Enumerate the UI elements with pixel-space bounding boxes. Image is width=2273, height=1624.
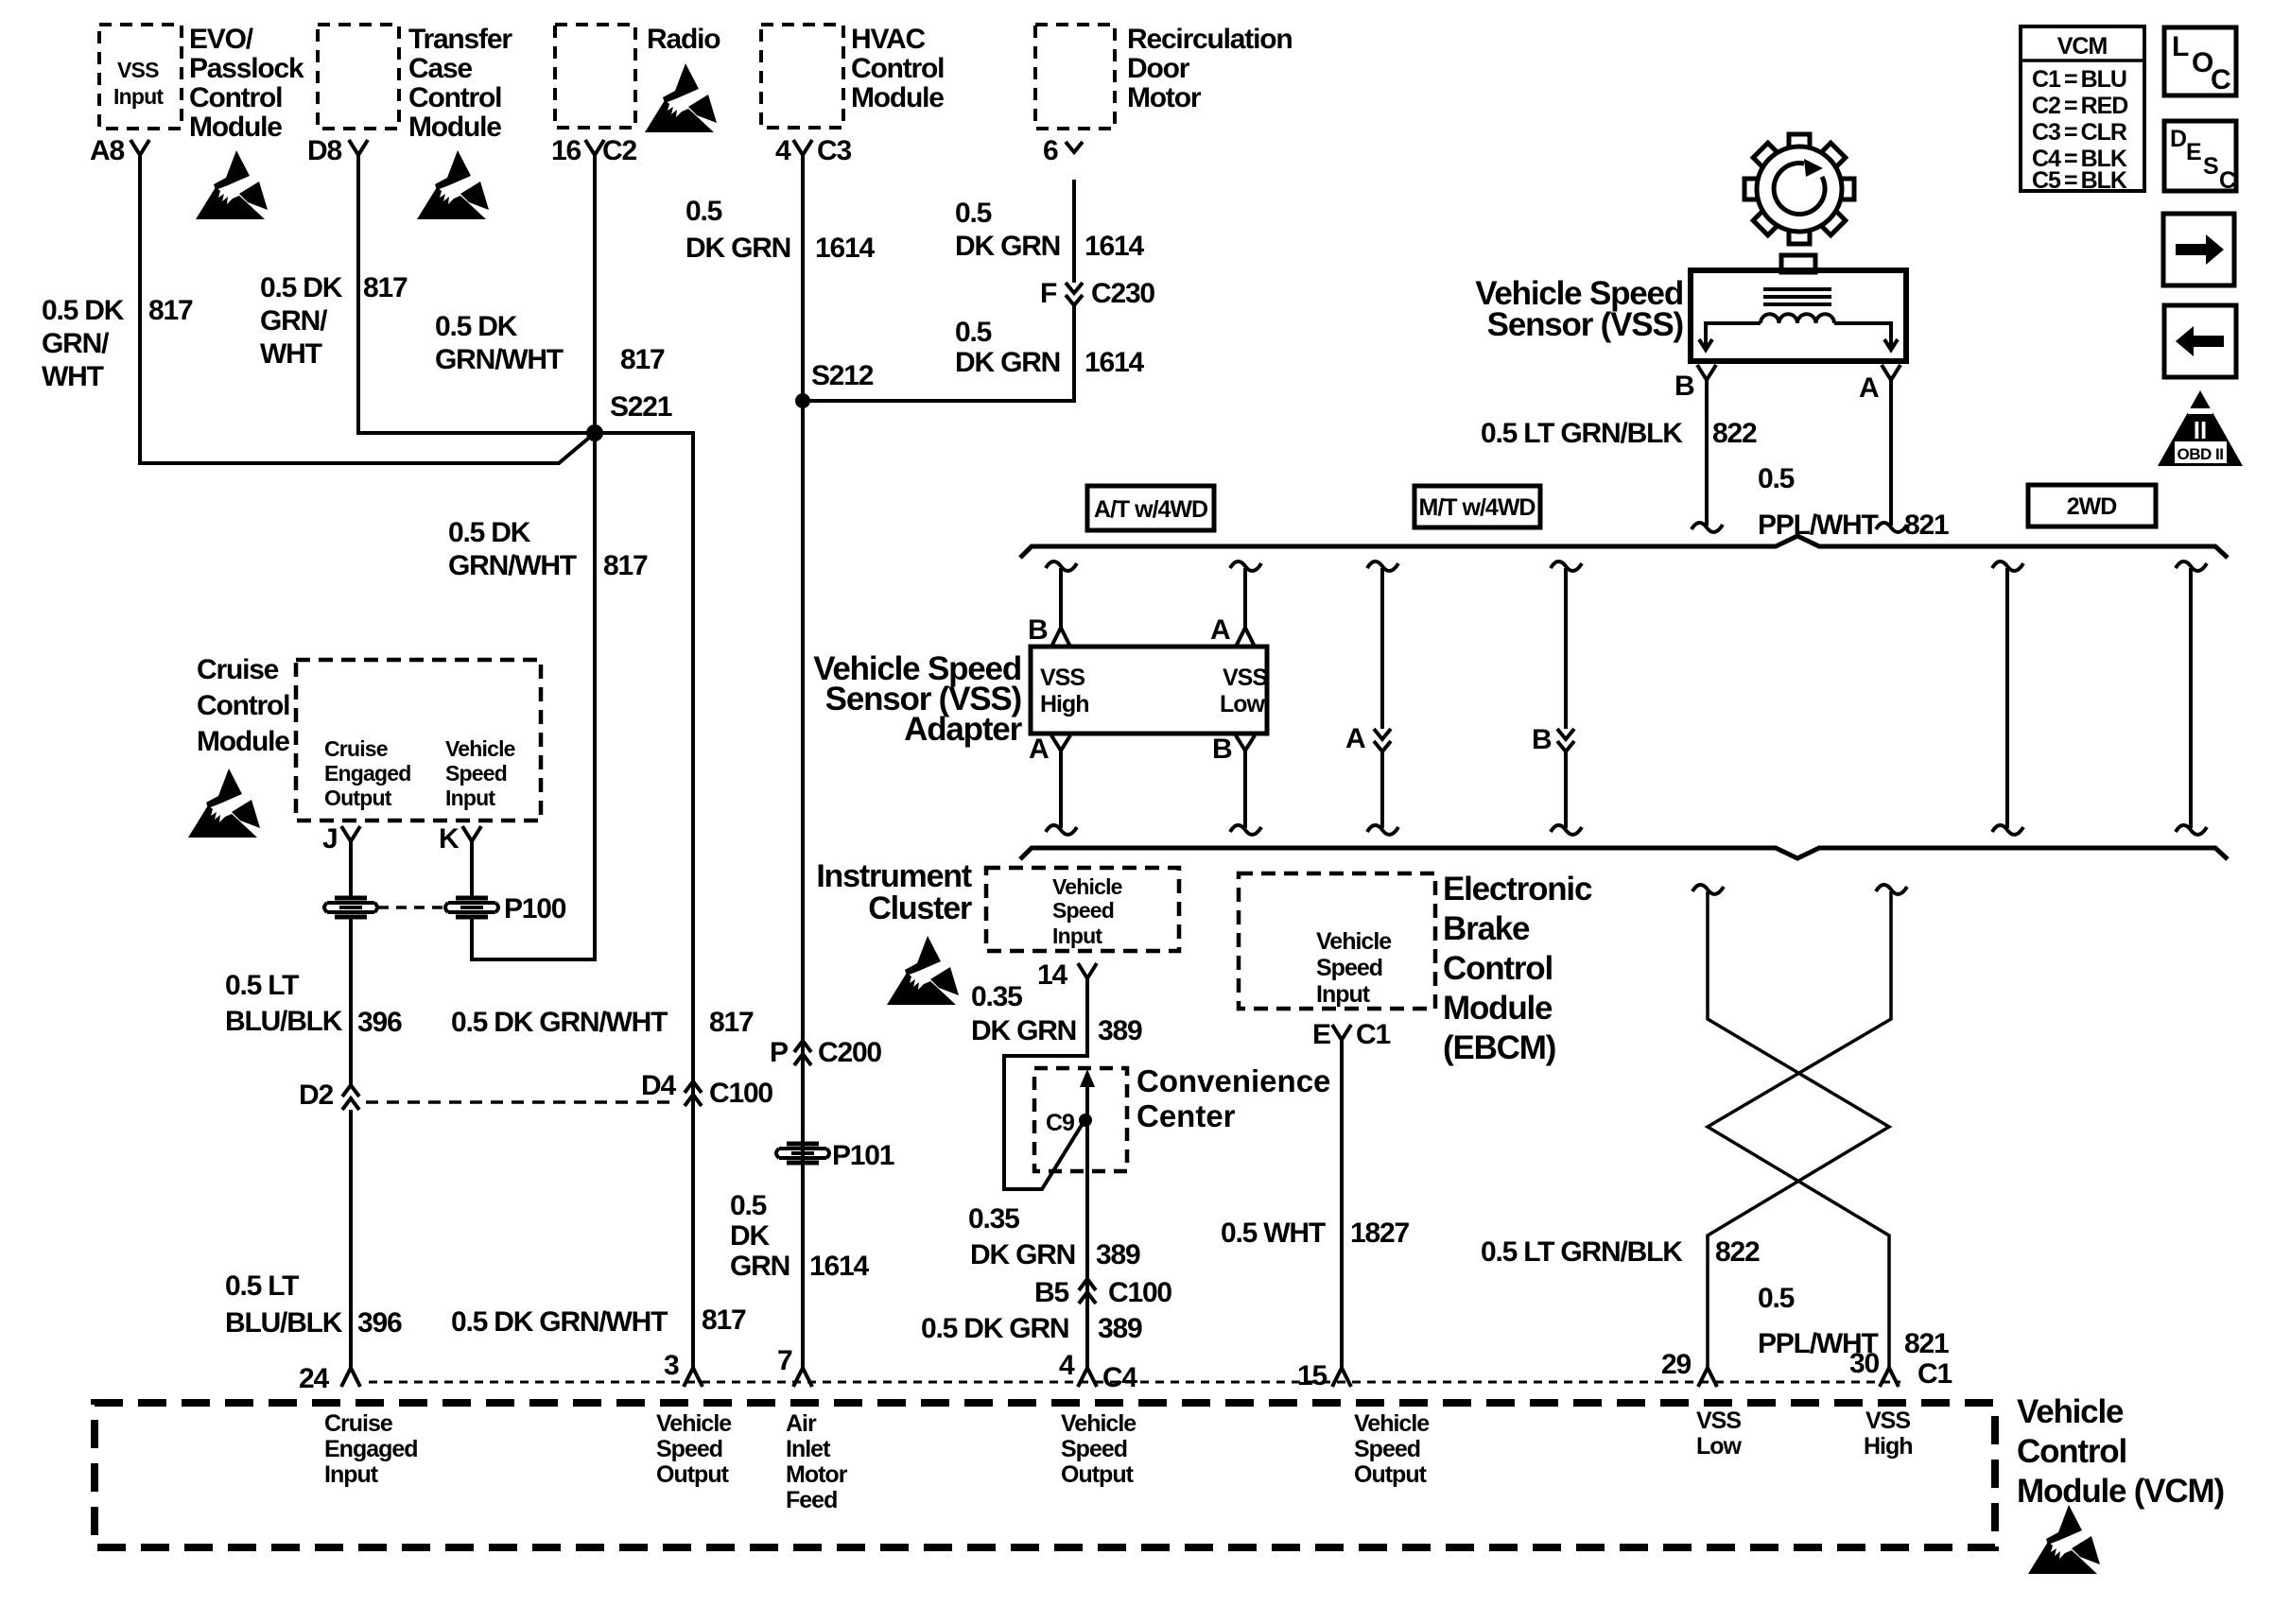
- wire 1827: EBCM E down to VCM pin 15: [1340, 1040, 1344, 1368]
- wire 817: S221 right then down to VCM pin 3: [595, 433, 693, 1368]
- svg-text:1614: 1614: [809, 1251, 869, 1282]
- svg-text:Vehicle: Vehicle: [1354, 1410, 1430, 1437]
- svg-text:B: B: [1212, 734, 1232, 765]
- left-arrow legend box: [2164, 305, 2236, 377]
- svg-text:D2: D2: [299, 1080, 333, 1111]
- svg-text:0.5 LT GRN/BLK: 0.5 LT GRN/BLK: [1481, 418, 1683, 449]
- svg-text:A: A: [1029, 734, 1049, 765]
- wire 822 from VSS B down to brace: [1705, 380, 1709, 526]
- branch wire to adapter VSS Low (pin A): [1230, 561, 1261, 571]
- dashed connector line D2 to D4: [366, 1100, 677, 1104]
- svg-text:396: 396: [357, 1307, 402, 1339]
- svg-text:GRN/: GRN/: [42, 328, 110, 359]
- svg-text:0.5 DK: 0.5 DK: [448, 517, 531, 548]
- svg-text:14: 14: [1037, 959, 1067, 991]
- svg-text:0.5 DK: 0.5 DK: [42, 295, 125, 326]
- svg-text:BLU/BLK: BLU/BLK: [225, 1006, 343, 1037]
- svg-text:Output: Output: [324, 786, 392, 810]
- dashed link between P100 grommets: [378, 906, 444, 909]
- svg-text:F: F: [1040, 278, 1057, 309]
- branch wire to adapter VSS High (pin B): [1046, 561, 1077, 571]
- svg-text:15: 15: [1297, 1360, 1327, 1391]
- svg-text:1614: 1614: [1084, 347, 1144, 378]
- svg-text:A8: A8: [90, 135, 124, 166]
- svg-text:P: P: [770, 1037, 788, 1068]
- svg-text:BLU/BLK: BLU/BLK: [225, 1307, 343, 1339]
- svg-text:822: 822: [1712, 418, 1757, 449]
- svg-text:S212: S212: [811, 360, 874, 391]
- svg-text:Inlet: Inlet: [786, 1436, 831, 1462]
- component Vehicle Speed Sensor (VSS) Adapter: [1031, 647, 1267, 734]
- svg-text:Motor: Motor: [1127, 82, 1202, 113]
- svg-text:Engaged: Engaged: [324, 1436, 418, 1462]
- svg-text:DK GRN: DK GRN: [955, 231, 1060, 262]
- svg-text:C: C: [2211, 64, 2230, 95]
- wire: K up into P100 grommet: [470, 841, 474, 897]
- svg-text:Center: Center: [1136, 1098, 1236, 1133]
- svg-text:4: 4: [1059, 1350, 1075, 1381]
- svg-text:VSS: VSS: [1040, 665, 1084, 691]
- svg-text:Module: Module: [189, 112, 282, 143]
- svg-text:16: 16: [551, 135, 581, 166]
- wire 396: D2 down to VCM pin 24: [349, 1110, 353, 1368]
- svg-text:DK GRN: DK GRN: [955, 347, 1060, 378]
- wire 1614: HVAC C3 down to S212 and on to VCM pin 7: [801, 155, 805, 1368]
- svg-text:817: 817: [709, 1007, 754, 1038]
- svg-text:1614: 1614: [1084, 231, 1144, 262]
- svg-text:0.5: 0.5: [685, 196, 722, 227]
- dashed pin header line: [369, 1381, 1900, 1384]
- svg-text:0.5 DK GRN/WHT: 0.5 DK GRN/WHT: [451, 1306, 668, 1338]
- ESD icon (Radio): [645, 63, 717, 132]
- svg-text:389: 389: [1098, 1015, 1142, 1046]
- svg-text:Module: Module: [197, 726, 289, 757]
- svg-text:PPL/WHT: PPL/WHT: [1758, 510, 1878, 541]
- svg-text:Vehicle: Vehicle: [1052, 874, 1122, 899]
- module Convenience Center (dashed box): [1034, 1068, 1127, 1171]
- svg-text:0.5: 0.5: [730, 1190, 767, 1221]
- svg-text:B: B: [1532, 724, 1552, 755]
- svg-text:Recirculation: Recirculation: [1127, 24, 1292, 55]
- splice S221: [586, 424, 603, 441]
- svg-text:817: 817: [702, 1304, 746, 1336]
- svg-text:Motor: Motor: [786, 1461, 848, 1488]
- svg-text:Module: Module: [851, 82, 944, 113]
- svg-text:Input: Input: [1316, 981, 1371, 1008]
- svg-text:0.5: 0.5: [1758, 1283, 1795, 1314]
- VCM connector color legend table: [2021, 26, 2144, 191]
- svg-text:24: 24: [299, 1363, 329, 1394]
- top brace bus line: [1020, 536, 2228, 558]
- option label box A/T w/4WD: [1087, 486, 1214, 530]
- svg-text:4: 4: [775, 135, 791, 166]
- svg-text:P100: P100: [504, 893, 566, 924]
- rotation arrow inside gear: [1774, 164, 1825, 215]
- ESD icon (Instrument Cluster): [887, 936, 959, 1005]
- svg-text:0.5 DK GRN: 0.5 DK GRN: [921, 1313, 1068, 1344]
- grommet P100 (K side): [445, 898, 498, 917]
- wire 389: pin 14 down, jog left around convenience center: [1004, 978, 1087, 1189]
- svg-text:D: D: [2170, 126, 2186, 152]
- DESC legend box: [2164, 121, 2236, 191]
- svg-text:821: 821: [1904, 510, 1949, 541]
- svg-text:Control: Control: [197, 690, 289, 721]
- svg-text:II: II: [2194, 416, 2207, 444]
- svg-text:2WD: 2WD: [2067, 493, 2117, 520]
- module Radio: [555, 25, 635, 128]
- svg-text:Low: Low: [1220, 691, 1266, 717]
- sensor neck: [1781, 255, 1815, 272]
- M/T branch wire A: [1367, 561, 1398, 571]
- svg-text:Engaged: Engaged: [324, 761, 411, 786]
- svg-text:C200: C200: [818, 1037, 881, 1068]
- svg-text:M/T w/4WD: M/T w/4WD: [1419, 494, 1536, 521]
- svg-text:821: 821: [1904, 1328, 1949, 1359]
- 2WD branch wire (left): [1992, 561, 2023, 571]
- bottom brace bus line: [1020, 848, 2228, 859]
- svg-text:Control: Control: [189, 82, 282, 113]
- svg-text:30: 30: [1849, 1348, 1879, 1379]
- M/T branch wire B: [1551, 561, 1582, 571]
- svg-text:C3: C3: [817, 135, 851, 166]
- wire 396: J down through P100 to D2: [349, 841, 353, 897]
- svg-text:D8: D8: [307, 135, 341, 166]
- svg-text:VCM: VCM: [2057, 33, 2108, 60]
- svg-text:817: 817: [363, 272, 408, 303]
- sensor coil: [1761, 314, 1834, 323]
- svg-text:DK GRN: DK GRN: [971, 1015, 1076, 1046]
- svg-text:Passlock: Passlock: [189, 53, 304, 84]
- svg-text:K: K: [439, 823, 460, 855]
- svg-text:L: L: [2172, 31, 2189, 62]
- svg-text:Speed: Speed: [656, 1436, 722, 1462]
- svg-text:WHT: WHT: [42, 361, 104, 392]
- svg-text:C1: C1: [1356, 1019, 1390, 1050]
- svg-text:Adapter: Adapter: [904, 711, 1022, 748]
- svg-text:A: A: [1345, 723, 1365, 754]
- svg-text:B5: B5: [1034, 1277, 1068, 1308]
- svg-text:0.5 WHT: 0.5 WHT: [1221, 1218, 1326, 1249]
- wire 817: A8 down and right to S221: [140, 155, 595, 463]
- option label box M/T w/4WD: [1414, 486, 1540, 527]
- module Transfer Case Control Module: [318, 25, 399, 129]
- svg-text:822: 822: [1715, 1236, 1760, 1268]
- svg-text:7: 7: [777, 1345, 792, 1376]
- svg-text:1614: 1614: [815, 233, 875, 264]
- svg-text:DK GRN: DK GRN: [685, 233, 790, 264]
- svg-text:Output: Output: [1354, 1461, 1428, 1488]
- svg-text:Control: Control: [2017, 1433, 2126, 1470]
- wire 822 VSS Low: below bottom brace, crossover to pin 29: [1692, 885, 1724, 894]
- svg-text:Electronic: Electronic: [1443, 871, 1592, 907]
- svg-text:817: 817: [148, 295, 193, 326]
- svg-text:WHT: WHT: [260, 338, 322, 370]
- svg-text:0.5 DK: 0.5 DK: [260, 272, 343, 303]
- svg-text:B: B: [1028, 614, 1048, 646]
- svg-text:Door: Door: [1127, 53, 1190, 84]
- ESD icon (VCM): [2028, 1505, 2100, 1574]
- svg-text:GRN/WHT: GRN/WHT: [435, 344, 564, 375]
- grommet P101 on HVAC wire: [776, 1144, 829, 1163]
- svg-text:High: High: [1040, 691, 1089, 717]
- svg-text:C5 = BLK: C5 = BLK: [2032, 167, 2127, 194]
- svg-text:Speed: Speed: [445, 761, 507, 786]
- svg-text:Output: Output: [1061, 1461, 1135, 1488]
- svg-text:HVAC: HVAC: [851, 24, 926, 55]
- wire up-arrow inside convenience center: [1085, 1081, 1089, 1368]
- svg-text:C4: C4: [1102, 1362, 1137, 1393]
- svg-text:0.5 LT GRN/BLK: 0.5 LT GRN/BLK: [1481, 1236, 1683, 1268]
- svg-text:C100: C100: [1108, 1277, 1171, 1308]
- svg-text:Convenience: Convenience: [1136, 1063, 1330, 1098]
- svg-text:Speed: Speed: [1316, 955, 1382, 981]
- svg-text:Sensor (VSS): Sensor (VSS): [1487, 306, 1683, 343]
- svg-text:0.5 DK GRN/WHT: 0.5 DK GRN/WHT: [451, 1007, 668, 1038]
- svg-text:A/T w/4WD: A/T w/4WD: [1094, 496, 1207, 523]
- wire 821 from VSS A down to brace: [1889, 380, 1893, 526]
- svg-text:OBD II: OBD II: [2178, 445, 2224, 463]
- svg-text:C1 = BLU: C1 = BLU: [2032, 66, 2126, 93]
- svg-text:C2 = RED: C2 = RED: [2032, 93, 2127, 119]
- svg-text:6: 6: [1043, 135, 1058, 166]
- svg-text:E: E: [1312, 1019, 1330, 1050]
- svg-text:A: A: [1210, 614, 1230, 646]
- ESD icon (Transfer Case): [417, 150, 489, 219]
- svg-text:C: C: [2219, 167, 2236, 194]
- svg-text:S: S: [2203, 153, 2218, 180]
- splice S212: [795, 393, 810, 408]
- svg-text:Case: Case: [408, 53, 472, 84]
- svg-text:GRN/WHT: GRN/WHT: [448, 550, 577, 581]
- svg-text:VSS: VSS: [1865, 1408, 1910, 1434]
- svg-text:DK GRN: DK GRN: [970, 1239, 1075, 1270]
- svg-text:Radio: Radio: [647, 24, 720, 55]
- svg-text:0.5 LT: 0.5 LT: [225, 1270, 299, 1302]
- 2WD branch wire (right): [2176, 561, 2207, 571]
- svg-text:Transfer: Transfer: [408, 24, 512, 55]
- svg-text:C3 = CLR: C3 = CLR: [2032, 119, 2127, 146]
- module EVO/Passlock Control Module (dashed box, VSS Input): [99, 25, 182, 129]
- svg-text:Speed: Speed: [1052, 898, 1114, 923]
- svg-text:C230: C230: [1091, 278, 1154, 309]
- wire S212 to recirculation motor: [803, 306, 1074, 401]
- svg-text:(EBCM): (EBCM): [1443, 1029, 1555, 1066]
- svg-text:Vehicle: Vehicle: [445, 736, 515, 761]
- svg-text:Vehicle: Vehicle: [1061, 1410, 1136, 1437]
- svg-text:C100: C100: [709, 1078, 772, 1109]
- OBD II triangle symbol: [2158, 390, 2243, 466]
- svg-text:0.35: 0.35: [971, 981, 1022, 1012]
- sensor internal wires with down arrows: [1706, 323, 1761, 348]
- wire 817: S221 down, left, up to cruise K via P100: [472, 433, 595, 959]
- wire 817: D8 down and right to S221: [358, 155, 595, 433]
- component Vehicle Speed Sensor (VSS) body: [1691, 270, 1906, 361]
- svg-text:Module (VCM): Module (VCM): [2017, 1473, 2224, 1510]
- svg-text:Input: Input: [113, 84, 164, 109]
- svg-text:817: 817: [603, 550, 648, 581]
- svg-text:C2: C2: [602, 135, 636, 166]
- svg-text:GRN: GRN: [730, 1251, 789, 1282]
- wire 821 VSS High: below bottom brace, crossover to pin 30: [1876, 885, 1907, 894]
- svg-text:0.5: 0.5: [1758, 463, 1795, 494]
- svg-text:Air: Air: [786, 1410, 817, 1437]
- svg-text:Input: Input: [324, 1461, 379, 1488]
- svg-text:Control: Control: [1443, 950, 1553, 987]
- module Recirculation Door Motor: [1035, 25, 1115, 129]
- svg-text:3: 3: [664, 1350, 679, 1381]
- svg-text:29: 29: [1661, 1349, 1691, 1380]
- svg-text:Cluster: Cluster: [868, 890, 972, 926]
- svg-text:Vehicle: Vehicle: [656, 1410, 732, 1437]
- svg-text:C9: C9: [1046, 1110, 1074, 1136]
- svg-text:0.5 LT: 0.5 LT: [225, 970, 299, 1001]
- svg-text:Cruise: Cruise: [324, 1410, 393, 1437]
- svg-text:0.5 DK: 0.5 DK: [435, 311, 518, 342]
- module HVAC Control Module: [761, 25, 843, 128]
- svg-text:C1: C1: [1917, 1358, 1952, 1390]
- svg-text:J: J: [322, 823, 338, 855]
- ESD icon (EVO module): [196, 150, 268, 219]
- svg-text:S221: S221: [610, 391, 672, 423]
- option label box 2WD: [2028, 485, 2156, 527]
- svg-text:389: 389: [1096, 1239, 1140, 1270]
- svg-text:D4: D4: [641, 1070, 676, 1101]
- svg-text:Control: Control: [408, 82, 501, 113]
- svg-text:A: A: [1859, 372, 1879, 404]
- svg-text:High: High: [1864, 1433, 1913, 1460]
- svg-text:P101: P101: [832, 1140, 894, 1171]
- svg-text:DK: DK: [730, 1220, 770, 1252]
- wire 817: Radio C2 down to S221: [593, 155, 597, 433]
- svg-text:0.35: 0.35: [968, 1203, 1019, 1235]
- svg-text:Speed: Speed: [1061, 1436, 1127, 1462]
- ESD icon (Cruise Control Module): [188, 769, 260, 838]
- svg-text:0.5: 0.5: [955, 317, 992, 348]
- svg-text:VSS: VSS: [117, 58, 159, 82]
- svg-text:Vehicle: Vehicle: [2017, 1393, 2124, 1430]
- LOC legend box: [2164, 27, 2236, 95]
- svg-text:Cruise: Cruise: [197, 654, 279, 685]
- module Electronic Brake Control Module (dashed box): [1239, 873, 1435, 1009]
- svg-text:EVO/: EVO/: [189, 24, 254, 55]
- grommet P100 (J side): [324, 898, 377, 917]
- svg-text:Low: Low: [1696, 1433, 1743, 1460]
- module Vehicle Control Module (VCM) (bold dashed box): [95, 1403, 1995, 1547]
- module Instrument Cluster (dashed box): [986, 868, 1179, 951]
- svg-text:389: 389: [1098, 1313, 1142, 1344]
- svg-text:Input: Input: [1052, 924, 1102, 948]
- svg-text:GRN/: GRN/: [260, 305, 328, 337]
- svg-text:Module: Module: [408, 112, 501, 143]
- right-arrow legend box: [2163, 214, 2234, 285]
- svg-text:Vehicle: Vehicle: [1316, 928, 1392, 955]
- reluctor gear icon: [1744, 134, 1854, 244]
- module Cruise Control Module (dashed box): [296, 660, 541, 821]
- svg-text:Brake: Brake: [1443, 910, 1530, 947]
- svg-text:E: E: [2186, 139, 2201, 165]
- svg-text:Control: Control: [851, 53, 944, 84]
- svg-text:396: 396: [357, 1007, 402, 1038]
- svg-text:Output: Output: [656, 1461, 730, 1488]
- svg-text:Cruise: Cruise: [324, 736, 388, 761]
- svg-text:0.5: 0.5: [955, 198, 992, 229]
- svg-text:1827: 1827: [1350, 1218, 1409, 1249]
- svg-text:VSS: VSS: [1696, 1408, 1741, 1434]
- svg-text:VSS: VSS: [1223, 665, 1267, 691]
- svg-text:817: 817: [620, 344, 665, 375]
- sensor core lines: [1763, 289, 1831, 304]
- svg-text:Feed: Feed: [786, 1487, 837, 1513]
- svg-text:Module: Module: [1443, 990, 1553, 1027]
- svg-text:Speed: Speed: [1354, 1436, 1420, 1462]
- svg-text:B: B: [1674, 371, 1694, 402]
- svg-text:Instrument: Instrument: [816, 858, 972, 894]
- svg-text:Input: Input: [445, 786, 495, 810]
